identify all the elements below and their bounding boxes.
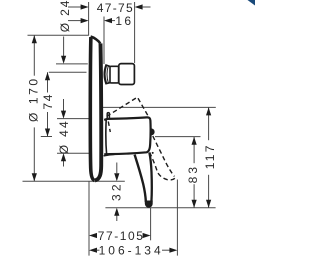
wire: ext line y=181.2 (plate bottom)	[23, 180, 125, 182]
svg-text:83: 83	[186, 164, 200, 184]
escutcheon plate (side view)	[91, 37, 101, 44]
wire: extension line lever tip x=151.3	[150, 208, 152, 241]
handle lower-right tick	[152, 152, 154, 154]
wire: ext line y=107.4	[102, 106, 216, 108]
handle block	[104, 117, 150, 154]
wire: ext line y=63.9 (pipe top, left of plate)	[56, 63, 88, 65]
wire: extension line wall bottom x=89	[88, 181, 90, 255]
wire: ext line y=207.8 (lever tip level)	[105, 207, 215, 209]
wire: ext line y=153.3	[57, 152, 90, 154]
svg-text:Ø 44: Ø 44	[57, 119, 71, 154]
svg-text:74: 74	[41, 93, 55, 110]
dashed lever (open position)	[107, 97, 149, 116]
wire: ext line y=72	[49, 71, 87, 73]
svg-text:Ø 24: Ø 24	[58, 0, 72, 32]
handle top-left nub	[107, 113, 109, 119]
handle bottom edge left dip	[104, 154, 115, 156]
svg-text:117: 117	[203, 143, 217, 169]
svg-text:106-134: 106-134	[99, 243, 164, 257]
handle right bump (button)	[151, 128, 155, 135]
wire: extension line plate front x=104	[103, 17, 105, 65]
wire: extension line knob front x=134.6	[134, 2, 136, 63]
svg-text:77-105: 77-105	[98, 229, 145, 243]
svg-text:Ø 170: Ø 170	[26, 76, 40, 122]
wire: ext line y=136.5 short	[41, 136, 52, 138]
lever tail	[135, 155, 146, 202]
dimension 117	[208, 107, 210, 140]
knob cartridge C	[119, 64, 135, 85]
dimension 16 row	[68, 20, 81, 22]
svg-text:32: 32	[109, 181, 123, 201]
dimension 32 (outside arrows)	[116, 163, 118, 174]
dimension 83	[193, 137, 195, 163]
svg-text:16: 16	[115, 14, 133, 28]
wire: ext line y=136.6 right	[155, 136, 201, 138]
dimension Ø170	[33, 35, 35, 75]
svg-text:47-75: 47-75	[97, 1, 134, 15]
dimension 106-134 row	[89, 248, 97, 253]
knob collar A	[104, 65, 110, 84]
wire: ext line y=118.6	[57, 118, 90, 120]
blue corner marker	[248, 0, 256, 6]
wire: extension line wall top x=88.6	[88, 2, 90, 36]
wire: extension line dashed-lever tip x=177.4	[176, 180, 178, 256]
dimension Ø44 (outside arrows)	[63, 99, 65, 111]
dimension 77-105 row	[89, 233, 97, 238]
handle left edge	[105, 120, 108, 155]
dimension 47-75 top row	[68, 6, 81, 8]
knob ring B	[110, 66, 119, 83]
dimension 74	[47, 72, 49, 92]
wire: ext line y=35.2 (plate top)	[28, 34, 89, 36]
